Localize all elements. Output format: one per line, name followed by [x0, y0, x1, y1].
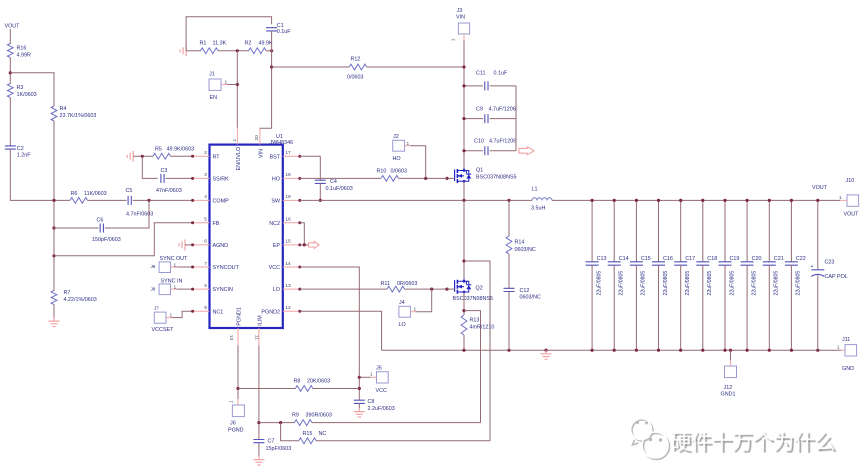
- pin 8 SYNCIN: [193, 288, 210, 290]
- svg-text:4.7uF/1206: 4.7uF/1206: [489, 139, 516, 145]
- svg-text:22uF/0805: 22uF/0805: [729, 271, 735, 296]
- svg-text:J7: J7: [154, 306, 159, 311]
- wire BST: [300, 156, 321, 180]
- junction: [462, 259, 465, 262]
- wire: [221, 84, 228, 86]
- svg-text:1.2nF: 1.2nF: [17, 153, 31, 159]
- junction: [591, 349, 594, 352]
- wire: [186, 17, 272, 51]
- wire: [463, 335, 465, 350]
- svg-text:VCC: VCC: [376, 388, 387, 394]
- svg-text:R4: R4: [60, 106, 67, 112]
- connector J6 PGND: [232, 405, 244, 417]
- svg-text:49.9K/0603: 49.9K/0603: [167, 147, 195, 153]
- wire: [88, 199, 127, 201]
- svg-text:SYNCIN: SYNCIN: [213, 287, 233, 293]
- svg-text:18: 18: [285, 172, 291, 178]
- wire: [166, 317, 172, 319]
- svg-text:C12: C12: [520, 288, 530, 294]
- svg-text:1: 1: [232, 139, 238, 142]
- svg-text:NC1: NC1: [213, 309, 224, 315]
- svg-text:EN/UVLO: EN/UVLO: [236, 147, 242, 171]
- wire: [840, 199, 847, 201]
- wire HO: [300, 177, 381, 179]
- wire: [53, 121, 55, 291]
- wire PGND2: [300, 311, 382, 350]
- svg-text:R5: R5: [155, 147, 162, 153]
- wire: [463, 182, 465, 201]
- svg-text:PGND1: PGND1: [237, 307, 243, 326]
- svg-text:1: 1: [837, 345, 840, 351]
- junction: [729, 349, 732, 352]
- svg-text:22uF/0805: 22uF/0805: [663, 271, 669, 296]
- resistor R8: [238, 388, 295, 390]
- wire: [105, 200, 149, 228]
- svg-text:0/0603: 0/0603: [391, 169, 408, 175]
- svg-text:20K/0603: 20K/0603: [307, 379, 330, 385]
- resistor R4: [51, 106, 57, 121]
- svg-text:EN: EN: [210, 95, 218, 101]
- wire: [316, 440, 490, 442]
- junction: [270, 65, 273, 68]
- ground: [49, 318, 60, 327]
- svg-text:LO: LO: [399, 322, 406, 328]
- wire: [236, 51, 238, 128]
- svg-text:J8: J8: [151, 287, 156, 292]
- wire: [237, 399, 239, 405]
- junction: [635, 199, 638, 202]
- wire: [9, 29, 11, 44]
- svg-text:AGND: AGND: [213, 243, 229, 249]
- junction: [279, 421, 282, 424]
- svg-text:R8: R8: [294, 379, 301, 385]
- svg-text:SYNC OUT: SYNC OUT: [160, 256, 189, 262]
- capacitor C3: [161, 174, 164, 183]
- pin 9 NC1: [193, 310, 210, 312]
- junction: [746, 349, 749, 352]
- svg-text:22uF/0805: 22uF/0805: [796, 271, 802, 296]
- svg-text:6: 6: [204, 239, 207, 245]
- transistor Q2: [455, 278, 472, 294]
- pin 1 EN/UVLO: [236, 128, 238, 145]
- svg-text:0.1uF/0603: 0.1uF/0603: [326, 186, 353, 192]
- wire: [10, 73, 54, 106]
- svg-text:22uF/0805: 22uF/0805: [707, 271, 713, 296]
- svg-text:C2: C2: [17, 146, 24, 152]
- svg-text:3: 3: [204, 172, 207, 178]
- resistor R16: [7, 44, 13, 58]
- svg-text:22uF/0805: 22uF/0805: [685, 271, 691, 296]
- capacitor C13: [591, 200, 593, 261]
- svg-text:GND1: GND1: [721, 392, 736, 398]
- wire: [171, 266, 177, 268]
- capacitor C15: [635, 200, 637, 261]
- wire: [300, 244, 309, 246]
- svg-text:R6: R6: [71, 191, 78, 197]
- pin 19 SW: [283, 199, 300, 201]
- resistor R5: [153, 153, 171, 159]
- resistor R13: [461, 315, 467, 335]
- svg-text:C14: C14: [619, 256, 629, 262]
- svg-text:R15: R15: [303, 431, 313, 437]
- ground: [253, 456, 264, 465]
- svg-text:150pF/0603: 150pF/0603: [92, 237, 121, 243]
- junction: [816, 349, 819, 352]
- junction: [723, 349, 726, 352]
- svg-text:17: 17: [285, 150, 291, 156]
- svg-text:390R/0603: 390R/0603: [306, 413, 332, 419]
- wire VOUT rail: [552, 199, 840, 201]
- svg-text:HO: HO: [272, 177, 280, 183]
- svg-text:22uF/0805: 22uF/0805: [751, 271, 757, 296]
- wire source sense: [464, 311, 481, 423]
- svg-text:47nF/0603: 47nF/0603: [156, 188, 182, 194]
- svg-text:R10: R10: [377, 169, 387, 175]
- svg-text:BSC037N08NS5: BSC037N08NS5: [476, 175, 516, 181]
- svg-text:10: 10: [228, 335, 234, 341]
- wire: [10, 149, 70, 200]
- svg-text:R1: R1: [200, 41, 207, 47]
- svg-text:BSC037N08NS5: BSC037N08NS5: [453, 296, 493, 302]
- junction: [462, 149, 465, 152]
- ground: [179, 239, 185, 250]
- svg-text:2.2uF/0603: 2.2uF/0603: [368, 406, 395, 412]
- capacitor C14: [613, 200, 615, 261]
- svg-text:VCC: VCC: [269, 265, 280, 271]
- svg-text:22uF/0805: 22uF/0805: [774, 271, 780, 296]
- svg-text:NC2: NC2: [269, 221, 280, 227]
- svg-text:15: 15: [285, 239, 291, 245]
- svg-text:SW: SW: [271, 199, 281, 205]
- svg-text:7: 7: [204, 261, 207, 267]
- svg-text:J3: J3: [457, 8, 463, 14]
- svg-text:PGND: PGND: [228, 428, 244, 434]
- svg-text:RT: RT: [213, 154, 221, 160]
- svg-text:4.22/1%/0603: 4.22/1%/0603: [64, 297, 97, 303]
- svg-text:+: +: [811, 264, 814, 270]
- resistor R11: [387, 286, 405, 292]
- junction: [701, 349, 704, 352]
- wire: [515, 86, 517, 151]
- pin 16 NC2: [283, 222, 300, 224]
- pin 4 COMP: [193, 199, 210, 201]
- ground: [180, 45, 186, 56]
- svg-text:C21: C21: [774, 256, 784, 262]
- wire: [312, 422, 481, 424]
- svg-text:R2: R2: [245, 41, 252, 47]
- svg-text:C5: C5: [126, 188, 133, 194]
- pin 14 VCC: [283, 266, 300, 268]
- svg-text:J12: J12: [724, 385, 733, 391]
- junction: [462, 349, 465, 352]
- capacitor C22: [790, 200, 792, 261]
- wire: [447, 288, 455, 290]
- junction: [147, 199, 150, 202]
- wire: [817, 275, 819, 350]
- wire: [730, 350, 732, 360]
- pin 6 AGND: [193, 244, 210, 246]
- svg-text:C8: C8: [368, 399, 375, 405]
- svg-text:R11: R11: [381, 281, 391, 287]
- pin 7 SYNCOUT: [193, 266, 210, 268]
- svg-text:L1: L1: [532, 187, 538, 193]
- pin 11 ILIM: [258, 328, 260, 345]
- resistor R3: [7, 84, 13, 98]
- capacitor C19: [724, 200, 726, 261]
- svg-text:BST: BST: [270, 154, 281, 160]
- capacitor C23 CAP POL: [817, 200, 819, 269]
- junction: [790, 349, 793, 352]
- resistor R14: [508, 200, 510, 236]
- svg-text:SS/RK: SS/RK: [213, 177, 230, 183]
- resistor R2: [249, 48, 267, 54]
- capacitor C18: [702, 200, 704, 261]
- wire: [405, 288, 448, 290]
- junction: [507, 349, 510, 352]
- svg-text:NC: NC: [319, 431, 327, 437]
- junction: [270, 49, 273, 52]
- wire VCC: [300, 267, 360, 400]
- wire: [186, 50, 200, 52]
- junction: [52, 254, 55, 257]
- junction: [319, 199, 322, 202]
- off-page arrow: [309, 241, 320, 248]
- svg-text:13: 13: [285, 283, 291, 289]
- svg-text:5: 5: [204, 217, 207, 223]
- wire: [142, 156, 157, 178]
- svg-text:J11: J11: [842, 337, 850, 343]
- inductor L1: [532, 198, 552, 201]
- svg-text:LO: LO: [273, 287, 280, 293]
- svg-text:GND: GND: [842, 366, 854, 372]
- svg-text:0.1uF: 0.1uF: [494, 71, 508, 77]
- pin 20 VIN: [259, 128, 261, 145]
- wire: [358, 403, 360, 408]
- capacitor C8: [354, 400, 365, 403]
- svg-text:3.5uH: 3.5uH: [531, 206, 545, 212]
- wire: [260, 31, 272, 128]
- wire: [218, 50, 249, 52]
- ground: [354, 408, 365, 417]
- svg-text:VIN: VIN: [259, 149, 265, 158]
- svg-text:11K/0603: 11K/0603: [84, 191, 107, 197]
- junction: [141, 155, 144, 158]
- capacitor C4: [315, 180, 326, 183]
- junction: [462, 117, 465, 120]
- resistor R1: [201, 48, 219, 54]
- junction: [257, 421, 260, 424]
- svg-text:VOUT: VOUT: [844, 212, 860, 218]
- wire: [133, 155, 153, 157]
- capacitor C1: [266, 28, 277, 31]
- wire: [463, 34, 465, 41]
- wire: [9, 58, 11, 84]
- capacitor C2: [5, 146, 16, 149]
- wire: [370, 376, 376, 378]
- capacitor C12: [504, 288, 515, 291]
- svg-text:0603/NC: 0603/NC: [520, 295, 541, 301]
- connector J12 GND1: [725, 366, 737, 378]
- svg-text:J4: J4: [399, 300, 405, 306]
- wire SW rail: [300, 199, 532, 201]
- junction: [236, 49, 239, 52]
- svg-text:SYNCOUT: SYNCOUT: [213, 265, 240, 271]
- svg-text:C3: C3: [161, 168, 168, 174]
- wire: [508, 254, 510, 288]
- svg-text:VIN: VIN: [456, 15, 465, 21]
- wire: [410, 311, 416, 313]
- svg-text:ILIM: ILIM: [257, 315, 263, 326]
- svg-text:0603/NC: 0603/NC: [515, 247, 536, 253]
- svg-text:COMP: COMP: [213, 199, 230, 205]
- wire ILIM: [258, 345, 260, 439]
- wire: [9, 98, 11, 147]
- junction: [52, 226, 55, 229]
- wire FB: [54, 223, 193, 256]
- svg-text:23.7K/1%/0603: 23.7K/1%/0603: [60, 113, 97, 119]
- resistor R9: [259, 422, 295, 424]
- pin 10 PGND1: [237, 328, 239, 345]
- svg-text:C7: C7: [268, 439, 275, 445]
- pin 18 HO: [283, 177, 300, 179]
- junction: [816, 199, 819, 202]
- wire GND rail: [382, 349, 841, 351]
- junction: [544, 349, 547, 352]
- svg-text:9: 9: [204, 305, 207, 311]
- svg-text:1K/0603: 1K/0603: [17, 92, 37, 98]
- wire: [185, 244, 193, 246]
- svg-text:R7: R7: [64, 290, 71, 296]
- capacitor C5: [128, 196, 131, 205]
- wire: [266, 50, 272, 52]
- svg-text:1: 1: [370, 372, 373, 378]
- wire: [319, 183, 321, 200]
- svg-text:R16: R16: [17, 46, 27, 52]
- capacitor C16: [658, 200, 660, 261]
- wire: [53, 305, 55, 318]
- ground: [127, 151, 133, 162]
- svg-text:C16: C16: [663, 256, 673, 262]
- svg-text:4.99R: 4.99R: [17, 53, 31, 59]
- svg-text:JWH8346: JWH8346: [270, 140, 294, 146]
- svg-text:VOUT: VOUT: [812, 185, 828, 191]
- svg-text:C13: C13: [597, 256, 607, 262]
- svg-text:2: 2: [204, 150, 207, 156]
- junction: [679, 349, 682, 352]
- svg-text:14: 14: [285, 261, 291, 267]
- junction: [462, 199, 465, 202]
- svg-text:22uF/0805: 22uF/0805: [641, 271, 647, 296]
- junction: [613, 349, 616, 352]
- junction: [723, 199, 726, 202]
- svg-text:11.3K: 11.3K: [213, 41, 227, 47]
- svg-text:C22: C22: [796, 256, 806, 262]
- pin 2 RT: [193, 155, 210, 157]
- svg-text:EP: EP: [273, 243, 281, 249]
- svg-text:4mR/1210: 4mR/1210: [470, 325, 495, 331]
- junction: [768, 349, 771, 352]
- junction: [430, 288, 433, 291]
- svg-text:FB: FB: [213, 221, 220, 227]
- svg-text:J9: J9: [151, 264, 156, 269]
- watermark text: [670, 426, 835, 456]
- junction: [52, 199, 55, 202]
- svg-text:C9: C9: [476, 107, 483, 113]
- svg-text:49.9K: 49.9K: [259, 41, 273, 47]
- svg-text:C18: C18: [707, 256, 717, 262]
- wire: [405, 145, 411, 147]
- svg-text:J6: J6: [230, 421, 236, 427]
- svg-text:8: 8: [204, 283, 207, 289]
- wire: [166, 177, 193, 179]
- svg-text:PGND2: PGND2: [261, 309, 280, 315]
- junction: [746, 199, 749, 202]
- svg-text:4: 4: [204, 194, 207, 200]
- junction: [358, 376, 361, 379]
- pin 13 LO: [283, 288, 300, 290]
- svg-text:C11: C11: [476, 71, 486, 77]
- svg-text:4.7uF/1206: 4.7uF/1206: [489, 107, 516, 113]
- svg-text:CAP POL: CAP POL: [825, 274, 848, 280]
- watermark logo: [626, 410, 676, 466]
- svg-text:22uF/0805: 22uF/0805: [596, 271, 602, 296]
- junction: [635, 349, 638, 352]
- wire: [171, 288, 177, 290]
- pin 5 FB: [193, 222, 210, 224]
- capacitor C20: [746, 200, 748, 261]
- svg-text:20: 20: [254, 135, 260, 141]
- svg-text:J10: J10: [846, 178, 855, 184]
- pin 15 EP: [283, 244, 300, 246]
- svg-text:J5: J5: [376, 366, 382, 372]
- ground: [541, 350, 552, 359]
- capacitor C17: [680, 200, 682, 261]
- svg-text:HO: HO: [393, 156, 401, 162]
- junction: [424, 177, 427, 180]
- junction: [236, 387, 239, 390]
- svg-text:11: 11: [254, 335, 260, 340]
- junction: [591, 199, 594, 202]
- svg-text:12: 12: [285, 305, 291, 311]
- svg-text:1: 1: [229, 400, 235, 403]
- wire Q2 source: [463, 292, 465, 315]
- wire: [133, 199, 193, 201]
- svg-text:15pF/0603: 15pF/0603: [266, 446, 292, 452]
- capacitor C6: [100, 224, 103, 233]
- pin 17 BST: [283, 155, 300, 157]
- junction: [462, 84, 465, 87]
- svg-text:0.1uF: 0.1uF: [277, 29, 291, 35]
- junction: [657, 349, 660, 352]
- svg-text:0/0603: 0/0603: [347, 75, 364, 81]
- svg-text:J2: J2: [393, 134, 399, 140]
- junction: [679, 199, 682, 202]
- transistor Q1: [455, 168, 472, 184]
- wire: [171, 155, 193, 157]
- capacitor C21: [768, 200, 770, 261]
- svg-text:16: 16: [285, 217, 291, 223]
- svg-text:C10: C10: [474, 139, 484, 145]
- junction: [358, 387, 361, 390]
- wire: [313, 388, 359, 390]
- svg-text:R13: R13: [470, 318, 480, 324]
- svg-text:19: 19: [285, 194, 291, 200]
- off-page arrow: [519, 147, 534, 155]
- svg-text:J1: J1: [209, 72, 215, 78]
- wire Q2 drain: [463, 200, 465, 278]
- wire: [54, 227, 99, 229]
- svg-text:Q2: Q2: [476, 286, 483, 292]
